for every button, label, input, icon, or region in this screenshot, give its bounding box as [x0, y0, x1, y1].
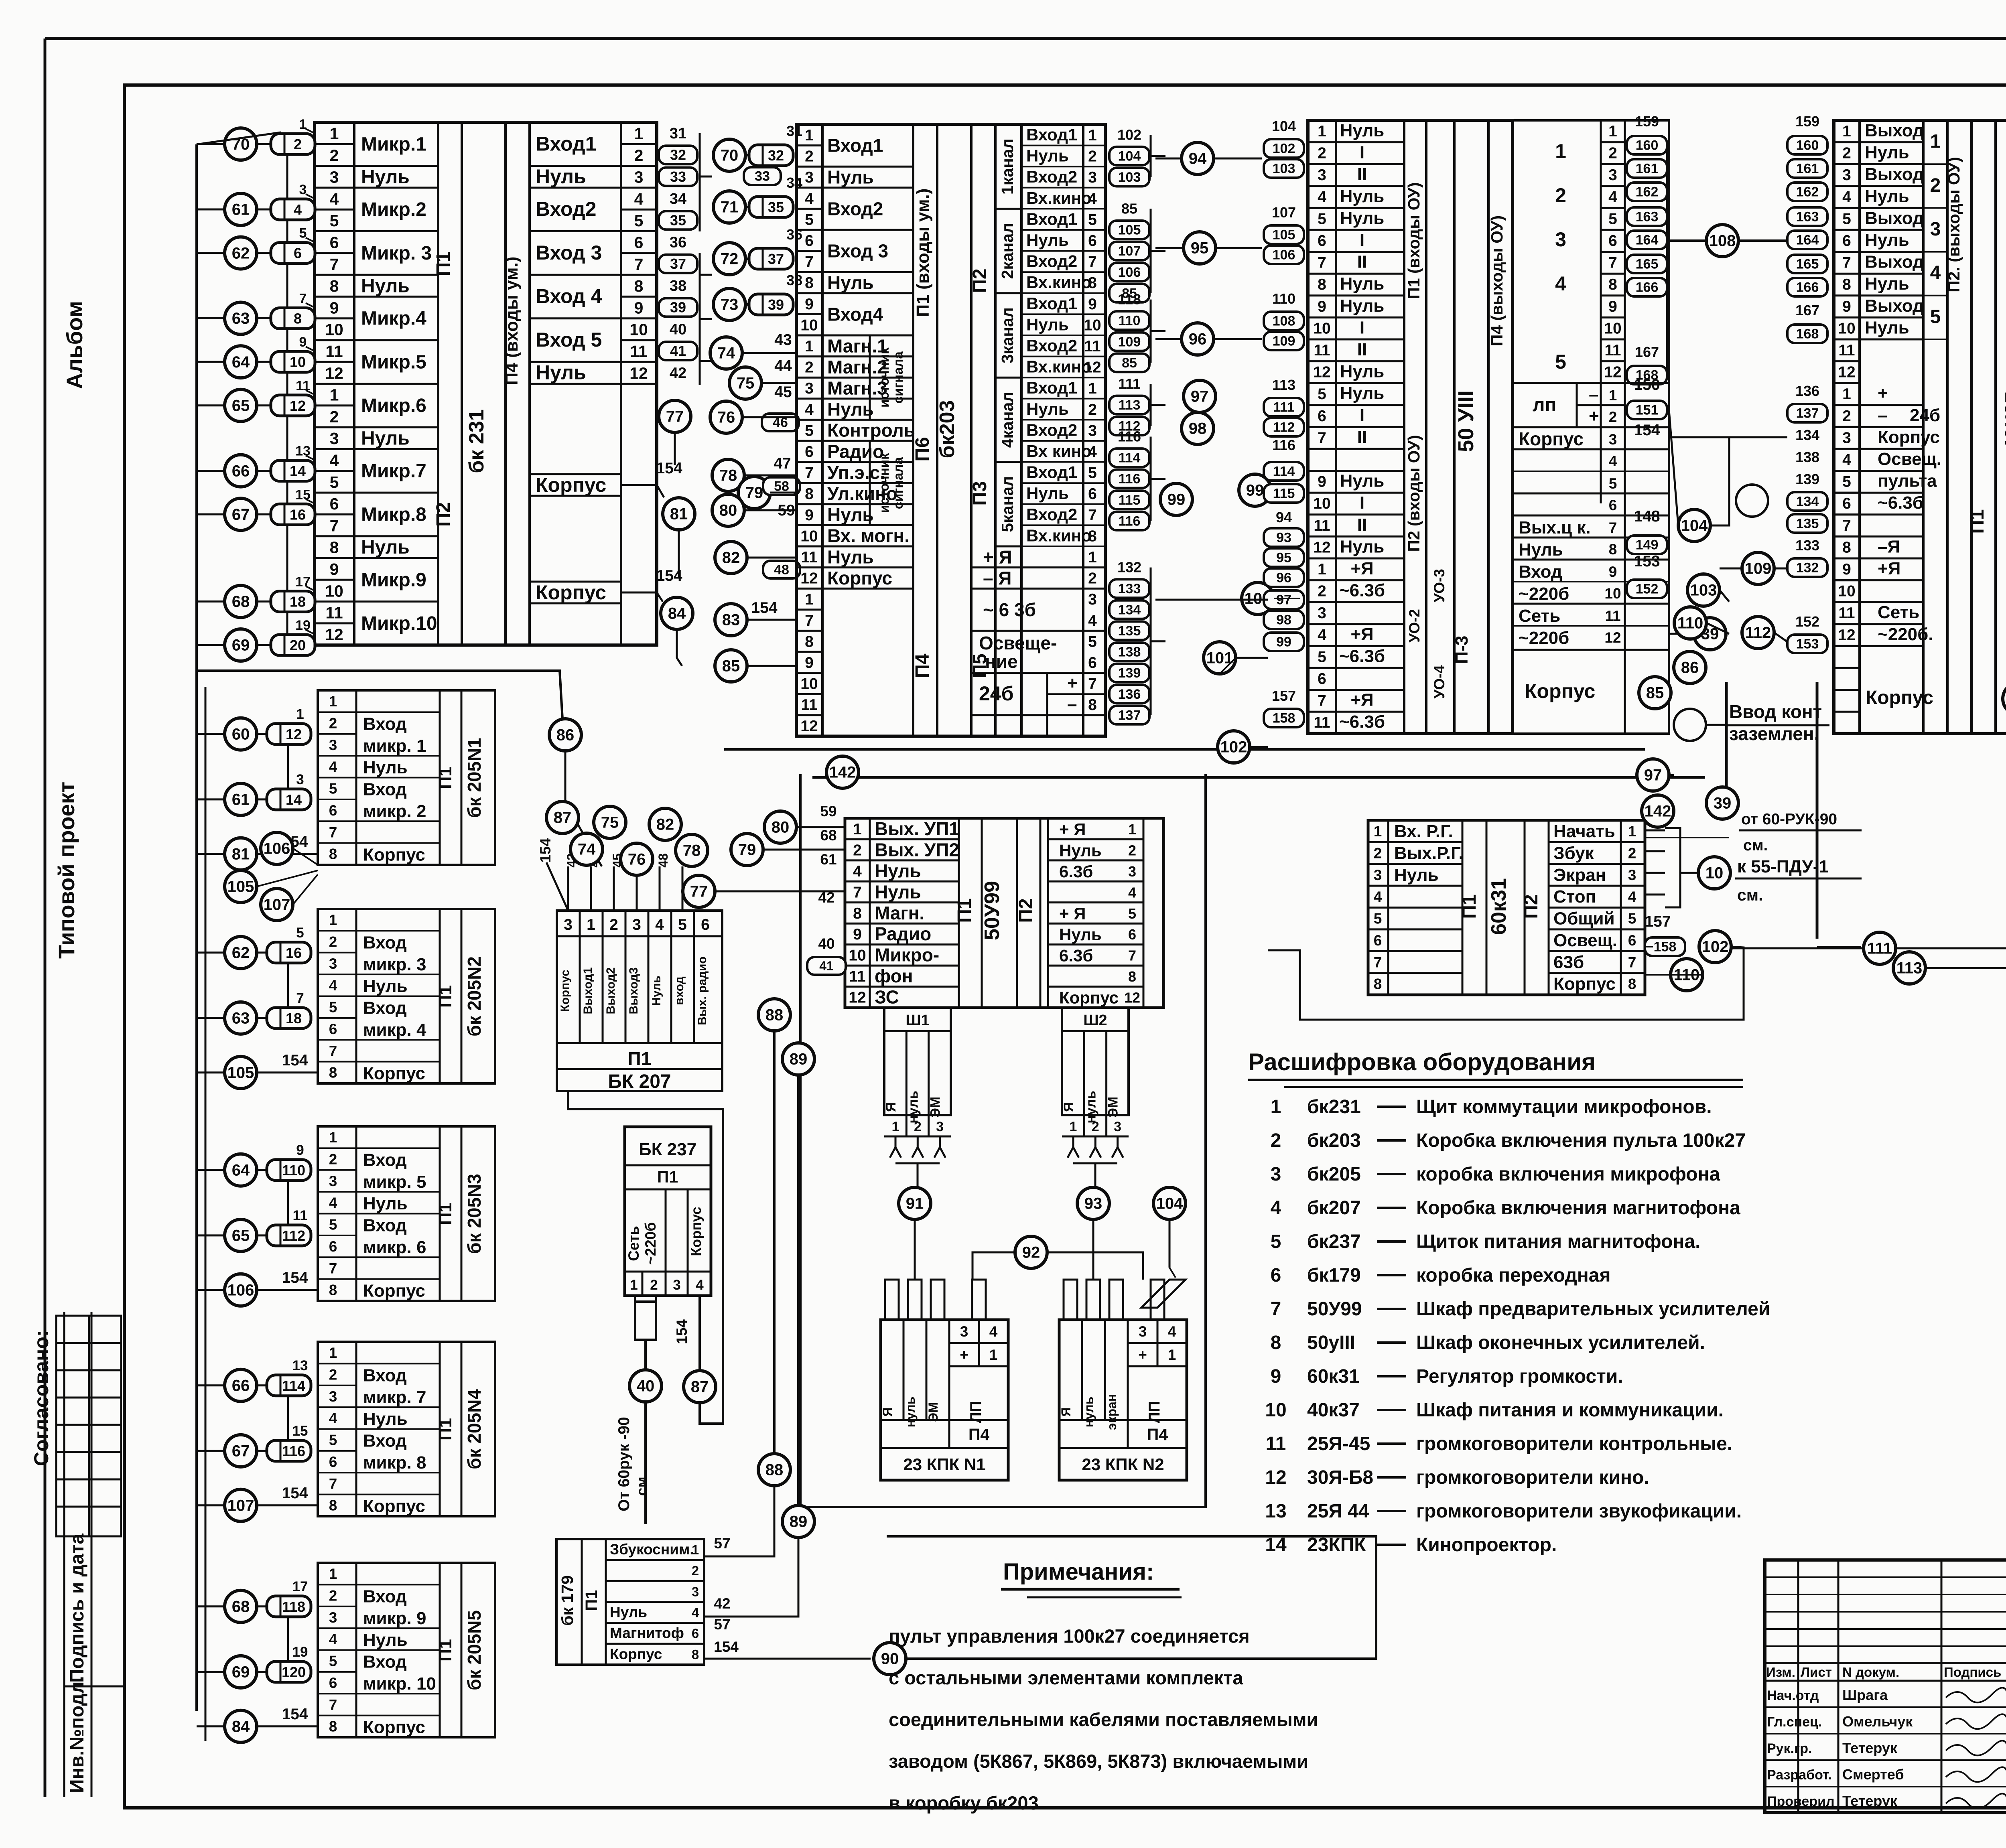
- svg-text:Экран: Экран: [1553, 865, 1606, 885]
- svg-text:4: 4: [1168, 1323, 1176, 1340]
- svg-text:23 КПК N2: 23 КПК N2: [1082, 1455, 1164, 1474]
- svg-text:153: 153: [1796, 637, 1819, 652]
- svg-text:157: 157: [1272, 688, 1296, 704]
- svg-text:Проверил: Проверил: [1767, 1794, 1835, 1809]
- circle 93: [1077, 1187, 1109, 1219]
- circle 97b 142b: [1637, 759, 1669, 791]
- svg-text:67: 67: [232, 506, 250, 523]
- svg-text:П1: П1: [628, 1048, 652, 1069]
- svg-text:Корпус: Корпус: [363, 845, 425, 865]
- svg-text:Вых.ц к.: Вых.ц к.: [1519, 518, 1591, 538]
- svg-text:61: 61: [232, 201, 250, 219]
- svg-text:87: 87: [554, 809, 572, 827]
- svg-text:9: 9: [299, 335, 307, 350]
- circle 142: [826, 756, 859, 788]
- svg-text:94: 94: [1189, 150, 1207, 168]
- svg-text:38: 38: [786, 272, 802, 288]
- Вых.ук rows: [1513, 515, 1669, 517]
- svg-text:104: 104: [1681, 517, 1708, 535]
- svg-text:133: 133: [1795, 537, 1819, 554]
- svg-text:нуль: нуль: [1082, 1397, 1096, 1428]
- svg-text:42: 42: [818, 889, 834, 906]
- svg-text:Вход: Вход: [363, 1586, 407, 1606]
- svg-text:Вход2: Вход2: [536, 198, 596, 220]
- svg-text:1канал: 1канал: [998, 138, 1017, 195]
- tag bracket 159-168: [1666, 145, 1668, 377]
- svg-text:3: 3: [329, 1609, 337, 1626]
- svg-text:Нуль: Нуль: [1340, 121, 1385, 140]
- svg-text:19: 19: [292, 1644, 308, 1660]
- projector block 23КПК N1: [881, 1320, 1008, 1480]
- svg-text:Нуль: Нуль: [1026, 146, 1069, 165]
- svg-text:Выход1: Выход1: [581, 968, 595, 1014]
- svg-text:8: 8: [1374, 976, 1382, 992]
- svg-text:77: 77: [666, 408, 684, 426]
- circle 39 near Сеть: [1694, 618, 1726, 650]
- svg-text:33: 33: [755, 169, 770, 184]
- svg-text:60: 60: [232, 725, 250, 743]
- svg-text:152: 152: [1795, 613, 1819, 630]
- svg-text:3: 3: [296, 772, 304, 787]
- svg-text:98: 98: [1276, 613, 1291, 628]
- svg-text:50 УIII: 50 УIII: [1454, 390, 1478, 452]
- svg-text:I: I: [1360, 406, 1364, 425]
- svg-text:8: 8: [1842, 276, 1851, 293]
- svg-text:9: 9: [805, 654, 814, 671]
- svg-text:4: 4: [1128, 884, 1136, 901]
- svg-text:12: 12: [1604, 629, 1621, 646]
- svg-text:Вх.кино: Вх.кино: [1026, 526, 1092, 545]
- svg-text:П1: П1: [436, 985, 455, 1008]
- svg-text:142: 142: [829, 764, 856, 781]
- svg-text:97: 97: [1191, 388, 1209, 406]
- svg-text:2канал: 2канал: [998, 223, 1017, 279]
- svg-text:микр. 10: микр. 10: [363, 1674, 436, 1694]
- svg-text:Нуль: Нуль: [610, 1604, 647, 1621]
- svg-text:7: 7: [1842, 254, 1851, 272]
- cable circle 66: [225, 1369, 257, 1402]
- svg-text:115: 115: [1119, 493, 1141, 508]
- svg-text:10: 10: [1313, 495, 1330, 512]
- Ш1 connector under 50У99: [884, 1008, 951, 1115]
- svg-text:бк 205N4: бк 205N4: [464, 1389, 485, 1469]
- svg-text:Магн.: Магн.: [875, 903, 924, 923]
- circle 110b: [1671, 959, 1703, 991]
- svg-text:5: 5: [1842, 473, 1851, 491]
- svg-text:1: 1: [805, 127, 814, 144]
- transition box бк179: [556, 1539, 704, 1665]
- svg-text:4: 4: [1088, 190, 1097, 207]
- svg-text:167: 167: [1635, 344, 1659, 360]
- svg-text:76: 76: [628, 851, 646, 868]
- svg-text:8: 8: [330, 538, 339, 557]
- svg-text:Выход: Выход: [1865, 164, 1924, 184]
- svg-text:6: 6: [1318, 670, 1326, 688]
- svg-text:6: 6: [329, 1675, 337, 1691]
- svg-text:149: 149: [1636, 538, 1659, 553]
- circle 84: [661, 597, 693, 629]
- svg-text:4: 4: [1271, 1197, 1281, 1219]
- svg-text:4: 4: [330, 190, 339, 208]
- svg-text:4: 4: [655, 916, 664, 933]
- svg-text:70: 70: [721, 147, 739, 164]
- svg-text:Освеще-: Освеще-: [979, 633, 1057, 653]
- circle 83 154: [715, 604, 747, 636]
- svg-text:12: 12: [849, 989, 866, 1006]
- svg-text:57: 57: [714, 1616, 730, 1633]
- corpus circle 106: [225, 1274, 257, 1306]
- svg-text:110: 110: [282, 1162, 305, 1179]
- connectors бк 205 N5: [267, 1596, 311, 1617]
- svg-text:1: 1: [299, 117, 307, 132]
- svg-text:+Я: +Я: [1350, 559, 1373, 578]
- transition block бк207: [557, 911, 722, 1091]
- svg-text:Вх кино: Вх кино: [1026, 442, 1092, 460]
- svg-text:134: 134: [1118, 602, 1141, 617]
- svg-text:24б: 24б: [979, 682, 1014, 705]
- svg-text:7: 7: [1374, 954, 1382, 970]
- svg-text:2: 2: [1555, 184, 1566, 207]
- svg-text:39: 39: [768, 296, 784, 313]
- svg-text:5: 5: [1271, 1231, 1281, 1252]
- svg-text:11: 11: [325, 342, 343, 361]
- svg-text:165: 165: [1796, 257, 1819, 272]
- svg-text:–: –: [1878, 406, 1887, 425]
- svg-text:23КПК: 23КПК: [1307, 1534, 1366, 1556]
- svg-text:18: 18: [286, 1010, 302, 1026]
- svg-text:5: 5: [1318, 210, 1326, 227]
- svg-text:Шкаф оконечных усилителей.: Шкаф оконечных усилителей.: [1416, 1332, 1705, 1353]
- svg-text:2: 2: [1088, 401, 1097, 418]
- svg-text:1: 1: [1555, 140, 1566, 162]
- svg-text:7: 7: [1609, 519, 1617, 536]
- circle 108: [1706, 225, 1738, 257]
- svg-text:Нуль: Нуль: [1059, 841, 1102, 860]
- svg-text:9: 9: [1842, 561, 1851, 578]
- svg-text:П2. (выходы ОУ): П2. (выходы ОУ): [1945, 157, 1963, 292]
- block бк 205 N4: [318, 1342, 495, 1516]
- svg-text:~ 6 3б: ~ 6 3б: [983, 599, 1036, 620]
- svg-text:160: 160: [1636, 138, 1659, 153]
- svg-text:Нуль: Нуль: [1865, 187, 1909, 206]
- svg-text:Корпус: Корпус: [1878, 427, 1940, 447]
- svg-text:88: 88: [765, 1461, 784, 1479]
- svg-text:137: 137: [1796, 406, 1819, 421]
- svg-text:115: 115: [1273, 486, 1295, 501]
- svg-text:ние: ние: [985, 651, 1018, 672]
- circle 76b: [621, 843, 653, 875]
- svg-text:2: 2: [1088, 570, 1097, 587]
- svg-text:10: 10: [1838, 583, 1855, 600]
- left cable bus vertical: [195, 144, 198, 1711]
- middle circles 104 109 103 110 112: [1678, 509, 1710, 542]
- svg-text:7: 7: [805, 465, 814, 482]
- circle 100: [1242, 582, 1274, 615]
- svg-text:12: 12: [629, 364, 648, 382]
- cable circle 68: [225, 585, 257, 617]
- svg-text:85: 85: [1122, 355, 1137, 371]
- svg-text:23 КПК N1: 23 КПК N1: [903, 1455, 985, 1474]
- svg-text:Вход2: Вход2: [1026, 167, 1077, 186]
- circle 39b: [1706, 787, 1738, 819]
- svg-text:Вых.Р.Г.: Вых.Р.Г.: [1394, 843, 1464, 863]
- svg-text:113: 113: [1896, 959, 1923, 977]
- svg-text:5: 5: [1318, 385, 1326, 403]
- svg-text:39: 39: [670, 299, 686, 316]
- svg-text:4: 4: [1930, 262, 1941, 284]
- svg-text:3: 3: [692, 1584, 699, 1599]
- svg-text:2: 2: [805, 359, 814, 376]
- circle 73: [713, 288, 745, 321]
- svg-text:97: 97: [1644, 767, 1662, 784]
- svg-text:162: 162: [1636, 185, 1659, 200]
- svg-text:+: +: [1878, 383, 1888, 403]
- svg-text:8: 8: [330, 277, 339, 295]
- svg-text:161: 161: [1796, 161, 1819, 176]
- svg-text:37: 37: [768, 251, 784, 267]
- svg-text:3: 3: [1088, 591, 1097, 608]
- corpus circle 105: [225, 1057, 257, 1089]
- block бк 205 N1: [318, 690, 495, 865]
- svg-text:92: 92: [1022, 1244, 1040, 1262]
- ЛП rows: [1513, 382, 1669, 384]
- svg-text:12: 12: [1313, 539, 1330, 556]
- svg-text:3: 3: [1842, 429, 1851, 446]
- svg-text:Микр.8: Микр.8: [361, 504, 426, 525]
- svg-text:3: 3: [805, 169, 814, 186]
- svg-text:153: 153: [1634, 553, 1660, 570]
- svg-text:4: 4: [1842, 451, 1851, 469]
- svg-text:2: 2: [329, 715, 337, 731]
- svg-text:12: 12: [325, 364, 343, 382]
- connector X10: [271, 351, 315, 372]
- svg-text:Вход2: Вход2: [1026, 420, 1077, 439]
- svg-text:П4 (входы ум.): П4 (входы ум.): [502, 257, 522, 385]
- svg-text:7: 7: [805, 254, 814, 271]
- connector X20: [271, 635, 315, 655]
- corpus circle 84: [225, 1710, 257, 1743]
- svg-text:~220б: ~220б: [1519, 584, 1569, 604]
- svg-text:76: 76: [717, 409, 735, 426]
- wire to bus: [197, 513, 225, 515]
- svg-text:4: 4: [1318, 627, 1326, 644]
- svg-text:Вход: Вход: [363, 1365, 407, 1385]
- svg-text:96: 96: [1276, 570, 1291, 586]
- svg-text:35: 35: [670, 212, 686, 228]
- svg-text:Нуль: Нуль: [1340, 296, 1385, 316]
- svg-text:154: 154: [656, 460, 682, 477]
- circle 40: [629, 1370, 662, 1402]
- svg-text:138: 138: [1118, 645, 1141, 660]
- svg-text:Шкаф питания и коммуникации: Шкаф питания и коммуникации.: [1416, 1400, 1724, 1421]
- svg-text:Корпус: Корпус: [536, 581, 606, 604]
- 40К37 left labels Выход/Нуль: [1860, 141, 1923, 143]
- svg-text:заводом (5К867, 5К869, 5К873): заводом (5К867, 5К869, 5К873) включаемым…: [889, 1751, 1308, 1772]
- svg-text:12: 12: [1838, 627, 1855, 644]
- svg-text:161: 161: [1636, 161, 1659, 176]
- svg-text:99: 99: [1246, 482, 1264, 499]
- svg-text:П1: П1: [657, 1168, 678, 1186]
- svg-text:3: 3: [330, 429, 339, 448]
- svg-text:154: 154: [282, 1706, 308, 1723]
- svg-text:80: 80: [719, 502, 737, 519]
- svg-text:П3: П3: [2004, 188, 2006, 213]
- svg-text:8: 8: [634, 277, 644, 295]
- svg-text:82: 82: [656, 816, 674, 834]
- svg-text:111: 111: [1273, 400, 1295, 415]
- signature 2: [1946, 1740, 2006, 1755]
- svg-text:9: 9: [330, 560, 339, 578]
- margin column lines: [63, 1312, 65, 1797]
- svg-text:6: 6: [1128, 926, 1136, 943]
- svg-text:8: 8: [329, 1282, 337, 1298]
- svg-text:104: 104: [1118, 148, 1141, 164]
- svg-text:136: 136: [1118, 687, 1141, 702]
- svg-text:1: 1: [329, 1129, 337, 1146]
- circles 111 113: [1864, 932, 1896, 964]
- svg-text:Корпус: Корпус: [1553, 974, 1616, 994]
- svg-text:5: 5: [1609, 475, 1617, 492]
- svg-text:163: 163: [1796, 209, 1819, 225]
- connector X14: [271, 460, 315, 481]
- svg-text:106: 106: [264, 840, 290, 858]
- svg-text:2: 2: [1318, 145, 1326, 162]
- svg-text:1: 1: [1271, 1096, 1281, 1118]
- svg-text:I: I: [1360, 143, 1364, 162]
- svg-text:П3: П3: [969, 481, 991, 505]
- svg-text:– Я: – Я: [983, 568, 1011, 588]
- svg-text:59: 59: [820, 803, 837, 820]
- svg-text:П1: П1: [433, 252, 454, 276]
- circle 85: [1639, 677, 1671, 709]
- circles 80 79 78 77 row: [764, 811, 796, 843]
- svg-text:60к31: 60к31: [1307, 1366, 1360, 1387]
- svg-text:78: 78: [719, 467, 737, 485]
- svg-text:10: 10: [1084, 316, 1101, 334]
- svg-text:микр. 3: микр. 3: [363, 955, 426, 974]
- svg-text:89: 89: [790, 1513, 808, 1531]
- svg-text:Щиток питания магнитофона.: Щиток питания магнитофона.: [1416, 1231, 1701, 1252]
- svg-text:9: 9: [1609, 564, 1617, 580]
- svg-text:Корпус: Корпус: [363, 1718, 425, 1737]
- svg-text:+Я: +Я: [1878, 559, 1900, 578]
- wire to bus: [197, 317, 225, 319]
- connectors бк 205 N1: [267, 724, 311, 744]
- svg-text:61: 61: [820, 851, 837, 868]
- volume regulator block 60К31: [1368, 820, 1645, 995]
- svg-text:Вход: Вход: [363, 714, 407, 734]
- svg-text:Сеть: Сеть: [1519, 606, 1560, 626]
- svg-text:Нуль: Нуль: [1340, 362, 1385, 381]
- svg-text:50У99: 50У99: [981, 881, 1004, 940]
- svg-text:Нуль: Нуль: [363, 1194, 408, 1213]
- svg-text:11: 11: [1314, 342, 1330, 359]
- svg-text:60к31: 60к31: [1487, 878, 1511, 935]
- svg-text:Вход 3: Вход 3: [827, 241, 888, 262]
- svg-text:1: 1: [1609, 387, 1617, 404]
- бк231 Корпус cells: [530, 473, 621, 475]
- svg-text:166: 166: [1636, 280, 1659, 295]
- svg-text:11: 11: [1838, 605, 1855, 622]
- svg-text:9: 9: [296, 1142, 304, 1158]
- circle 86: [1674, 651, 1706, 684]
- svg-text:Ш2: Ш2: [1083, 1012, 1107, 1029]
- svg-text:Вх. Р.Г.: Вх. Р.Г.: [1394, 822, 1453, 841]
- svg-text:микр. 1: микр. 1: [363, 736, 426, 756]
- svg-text:Вход 3: Вход 3: [536, 241, 602, 264]
- svg-text:Выход: Выход: [1865, 208, 1924, 228]
- svg-text:12: 12: [800, 570, 818, 587]
- wire to bus: [197, 644, 225, 646]
- svg-text:5канал: 5канал: [998, 476, 1017, 532]
- circle 92: [1015, 1236, 1047, 1268]
- svg-text:109: 109: [1745, 560, 1772, 578]
- svg-text:II: II: [1357, 164, 1367, 184]
- бк203 channel labels: [995, 208, 1021, 210]
- svg-text:Выход: Выход: [1865, 121, 1924, 140]
- svg-text:86: 86: [1681, 659, 1699, 677]
- svg-text:86: 86: [556, 726, 575, 744]
- svg-text:84: 84: [668, 605, 686, 623]
- svg-text:Корпус: Корпус: [363, 1497, 425, 1516]
- svg-text:7: 7: [1088, 676, 1097, 693]
- svg-text:Микр.7: Микр.7: [361, 460, 426, 482]
- svg-text:1: 1: [853, 821, 862, 838]
- svg-text:П2: П2: [1015, 898, 1037, 923]
- svg-text:Збукосним.: Збукосним.: [610, 1541, 694, 1558]
- wire to bus: [197, 209, 225, 211]
- svg-text:102: 102: [1702, 938, 1729, 956]
- terminal block 50УIII: [1308, 120, 1513, 734]
- svg-text:6: 6: [1609, 497, 1617, 513]
- svg-text:Выход: Выход: [1865, 296, 1924, 316]
- svg-text:П1: П1: [436, 1639, 455, 1661]
- svg-text:93: 93: [1084, 1195, 1102, 1213]
- svg-text:2: 2: [853, 842, 862, 859]
- svg-text:4: 4: [692, 1605, 699, 1620]
- svg-text:бк 205N1: бк 205N1: [464, 738, 485, 818]
- svg-text:1: 1: [692, 1542, 699, 1557]
- svg-text:158: 158: [1654, 939, 1677, 955]
- circle 99: [1239, 474, 1271, 506]
- svg-text:II: II: [1357, 340, 1367, 359]
- svg-text:бк231: бк231: [1307, 1096, 1361, 1118]
- svg-text:1: 1: [805, 338, 814, 355]
- svg-text:+ Я: + Я: [1059, 904, 1086, 923]
- svg-text:6: 6: [294, 245, 302, 262]
- svg-text:45: 45: [774, 383, 792, 401]
- svg-text:150: 150: [1634, 376, 1660, 394]
- svg-text:Вход: Вход: [363, 1652, 407, 1672]
- svg-text:25Я 44: 25Я 44: [1307, 1501, 1369, 1522]
- svg-text:сигнала: сигнала: [891, 457, 906, 509]
- svg-text:157: 157: [1645, 913, 1671, 930]
- svg-text:Вх.кино: Вх.кино: [1026, 357, 1092, 376]
- svg-text:П1: П1: [1459, 894, 1480, 919]
- svg-text:3: 3: [1930, 219, 1941, 240]
- svg-text:8: 8: [329, 846, 337, 862]
- svg-text:1: 1: [989, 1347, 998, 1363]
- svg-text:Тетерук: Тетерук: [1842, 1793, 1898, 1809]
- svg-text:1: 1: [1628, 823, 1636, 840]
- svg-text:105: 105: [1273, 227, 1295, 243]
- svg-text:99: 99: [1276, 635, 1291, 650]
- svg-text:69: 69: [232, 637, 250, 654]
- svg-text:Нуль: Нуль: [363, 1409, 408, 1429]
- cable circle 61: [225, 783, 257, 815]
- svg-text:12: 12: [1084, 359, 1101, 376]
- svg-text:УО-2: УО-2: [1406, 609, 1423, 643]
